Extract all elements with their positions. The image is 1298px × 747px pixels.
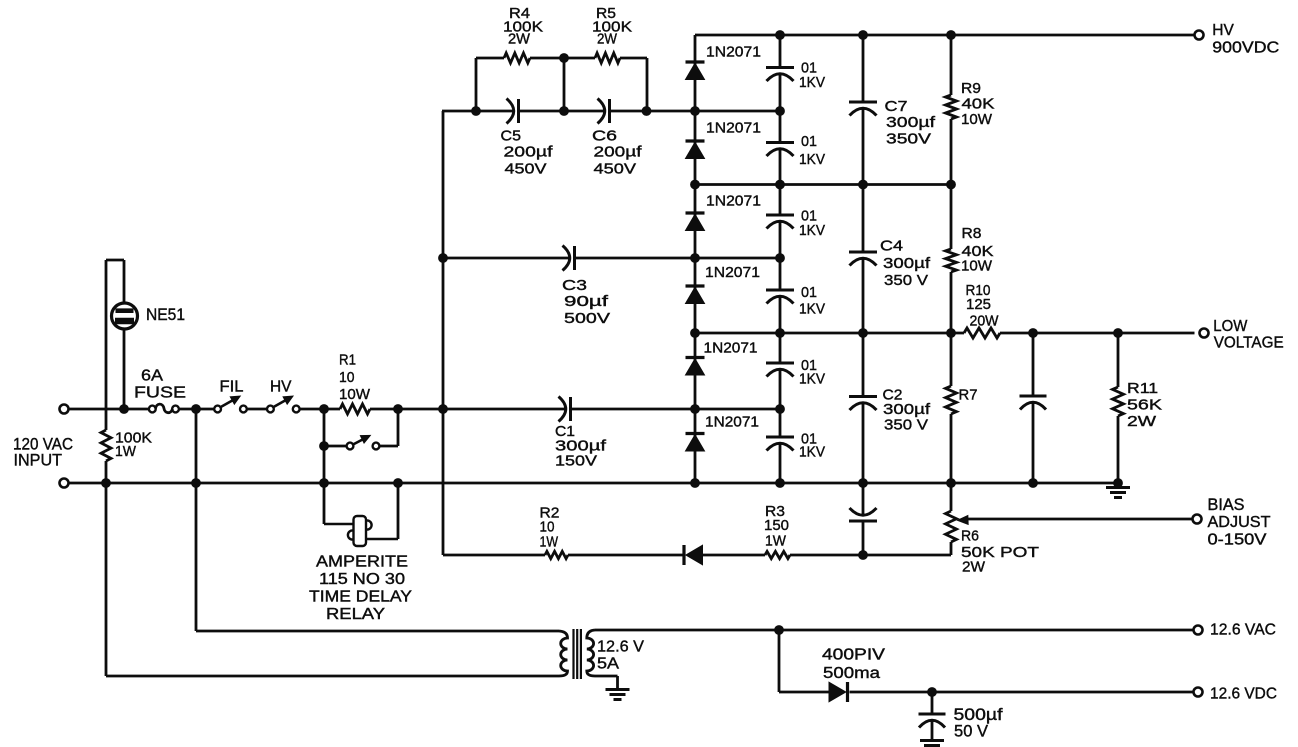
svg-text:12.6 VAC: 12.6 VAC — [1210, 622, 1276, 639]
svg-text:6A: 6A — [141, 368, 163, 385]
svg-text:50 V: 50 V — [954, 723, 988, 741]
terminal 12.6 VDC — [1194, 688, 1203, 697]
svg-text:2W: 2W — [962, 559, 986, 576]
svg-text:1N2071: 1N2071 — [706, 44, 761, 61]
diode D1 1N2071 — [686, 60, 705, 63]
capacitor C6 200uf 450V — [598, 99, 605, 124]
svg-text:10: 10 — [339, 369, 355, 386]
terminal LOW VOLTAGE — [1200, 329, 1209, 338]
capacitor .01 1KV (3) — [766, 214, 794, 217]
svg-text:1N2071: 1N2071 — [704, 340, 758, 357]
wire R11 column x=1118 — [1117, 333, 1120, 387]
node dot bias rail at cap — [858, 550, 868, 560]
fuse 6A — [149, 406, 156, 413]
wire 12.6VAC-to-rectifier branch x=779 — [778, 630, 781, 692]
wire bias rail (y=555) — [443, 554, 545, 557]
svg-text:2W: 2W — [508, 31, 531, 48]
svg-text:150V: 150V — [555, 453, 597, 470]
wire filter cap column x=1033 — [1032, 333, 1035, 396]
node dot relay bypass row — [319, 441, 329, 451]
node dot 12.6VAC branch — [774, 625, 784, 635]
svg-text:1KV: 1KV — [799, 301, 825, 318]
svg-text:1KV: 1KV — [799, 222, 825, 239]
svg-text:1N2071: 1N2071 — [706, 120, 761, 137]
resistor R8 40K 10W — [946, 249, 957, 272]
svg-text:1KV: 1KV — [799, 371, 825, 388]
wire relay bypass row (y=446) — [324, 445, 347, 448]
svg-text:R6: R6 — [961, 528, 979, 545]
diode D6 1N2071 — [686, 432, 705, 435]
wire resistor column x=951 segments — [950, 35, 953, 95]
svg-text:5A: 5A — [597, 656, 619, 673]
svg-text:10W: 10W — [961, 111, 993, 128]
diode D2 1N2071 — [686, 139, 705, 142]
svg-text:115 NO 30: 115 NO 30 — [319, 571, 405, 588]
node dots LOW VOLTAGE rail — [690, 328, 700, 338]
svg-text:10W: 10W — [961, 258, 993, 275]
svg-text:300µf: 300µf — [886, 114, 936, 131]
svg-text:1W: 1W — [540, 534, 559, 551]
svg-text:450V: 450V — [505, 161, 547, 178]
svg-text:1KV: 1KV — [799, 151, 825, 168]
wire big capacitor column x=863 segments — [862, 35, 865, 102]
terminal 12.6 VAC — [1194, 626, 1203, 635]
capacitor C7 300uf 350V — [849, 101, 877, 104]
svg-text:C5: C5 — [501, 128, 522, 145]
svg-text:TIME DELAY: TIME DELAY — [309, 589, 412, 606]
node dots C5/C6 row — [471, 106, 481, 116]
svg-text:1KV: 1KV — [799, 444, 825, 461]
ground (500uf filter) — [920, 739, 944, 742]
svg-text:1N2071: 1N2071 — [706, 193, 761, 210]
transformer primary winding — [559, 631, 568, 676]
wire row y=183 (2nd multiplier tap) — [695, 183, 951, 186]
transformer secondary winding 12.6V 5A — [587, 630, 595, 676]
resistor R10 125 20W — [964, 328, 1000, 338]
wire NE51 branch x=124 — [123, 260, 126, 304]
capacitor .01 1KV (4) — [766, 289, 794, 292]
svg-text:300µf: 300µf — [883, 255, 931, 272]
svg-text:350 V: 350 V — [884, 417, 928, 434]
wire LOW VOLTAGE rail (y=333) — [695, 332, 964, 335]
svg-text:200µf: 200µf — [594, 144, 643, 161]
svg-text:900VDC: 900VDC — [1212, 40, 1279, 57]
node dot R4-R5 junction — [559, 53, 569, 63]
capacitor .01 1KV (6) — [766, 436, 794, 439]
svg-text:ADJUST: ADJUST — [1208, 514, 1271, 531]
svg-text:150: 150 — [764, 517, 789, 534]
svg-text:LOW: LOW — [1213, 318, 1248, 335]
relay coil AMPERITE 115NO30 — [324, 523, 354, 526]
wire C5/C6 row (y=111) — [442, 110, 513, 113]
neon lamp NE51 — [112, 303, 138, 329]
svg-text:500V: 500V — [564, 310, 610, 327]
wire HV rail (top, y=35) — [695, 34, 1195, 37]
wire 0.01uf capacitor column x=780 segments — [779, 35, 782, 68]
capacitor (unlabeled, low voltage filter) — [1020, 395, 1047, 398]
node dot 500uf branch — [927, 687, 937, 697]
diode D5 1N2071 — [686, 356, 705, 359]
resistor R1 10 10W — [340, 404, 370, 414]
svg-text:400PIV: 400PIV — [822, 647, 886, 664]
svg-text:INPUT: INPUT — [14, 451, 63, 470]
svg-text:C3: C3 — [562, 277, 587, 294]
svg-text:500ma: 500ma — [823, 665, 880, 682]
capacitor .01 1KV (2) — [766, 141, 794, 144]
diode D3 1N2071 — [686, 211, 705, 214]
svg-text:HV: HV — [270, 379, 292, 396]
wire input hot rail / C1 row (y=409) — [68, 408, 149, 411]
svg-text:10W: 10W — [339, 386, 371, 403]
wire R4/R5 mid stub x=564 — [563, 58, 566, 111]
terminal HV 900VDC — [1195, 31, 1204, 40]
svg-text:RELAY: RELAY — [326, 606, 385, 623]
svg-text:12.6 VDC: 12.6 VDC — [1210, 686, 1277, 703]
resistor R11 56K 2W — [1113, 387, 1124, 416]
svg-text:NE51: NE51 — [146, 306, 185, 324]
svg-text:R7: R7 — [959, 387, 978, 404]
svg-text:1N2071: 1N2071 — [705, 264, 760, 281]
svg-text:VOLTAGE: VOLTAGE — [1214, 335, 1284, 352]
resistor R3 150 1W — [765, 551, 790, 558]
svg-text:12.6 V: 12.6 V — [597, 639, 644, 656]
resistor R4 100K 2W — [504, 53, 530, 63]
svg-text:500µf: 500µf — [954, 706, 1003, 724]
capacitor C5 200uf 450V — [507, 99, 514, 124]
capacitor 500uf 50V — [919, 713, 946, 716]
resistor R5 100K 2W — [595, 53, 620, 63]
capacitor C1 300uf 150V — [559, 397, 566, 422]
svg-text:350 V: 350 V — [884, 272, 928, 289]
transformer core — [572, 629, 574, 679]
switch relay contact (shorts R1) — [347, 443, 354, 450]
svg-text:AMPERITE: AMPERITE — [316, 554, 408, 571]
svg-text:1W: 1W — [765, 533, 787, 550]
node dots input hot rail — [119, 404, 129, 414]
wire left tall branch x=106 (loop / 100K / primary bottom feed) — [105, 260, 108, 430]
svg-text:HV: HV — [1212, 22, 1234, 39]
wire bias adjust wiper row (y=519) — [967, 518, 1195, 521]
diode (bias rectifier, pointing left) — [682, 545, 685, 565]
capacitor .01 1KV (5) — [766, 362, 794, 365]
svg-text:0-150V: 0-150V — [1208, 532, 1267, 549]
svg-text:450V: 450V — [594, 161, 637, 178]
wire 12.6VDC rail (y=692) — [779, 691, 829, 694]
resistor R2 10 1W — [545, 551, 568, 558]
terminal 120VAC input (neutral) — [60, 479, 69, 488]
svg-text:C7: C7 — [885, 98, 908, 115]
node dots top HV rail — [775, 30, 785, 40]
svg-text:R8: R8 — [962, 225, 982, 242]
svg-text:1N2071: 1N2071 — [705, 414, 759, 431]
svg-text:FUSE: FUSE — [134, 385, 186, 402]
svg-text:1W: 1W — [115, 443, 137, 460]
diode 400PIV 500ma (pointing right) — [829, 682, 846, 702]
resistor R7 — [946, 386, 957, 414]
resistor 100K 1W (input bleeder) — [101, 430, 111, 461]
wire R5 right bracket x=647 — [646, 58, 649, 111]
resistor R9 40K 10W — [946, 95, 957, 119]
svg-text:R11: R11 — [1127, 380, 1158, 397]
node dots neutral rail — [101, 478, 111, 488]
svg-text:1KV: 1KV — [799, 74, 825, 91]
svg-text:56K: 56K — [1127, 397, 1162, 414]
potentiometer R6 50K 2W — [946, 511, 957, 542]
wire 500uf branch x=932 — [931, 692, 934, 714]
switch HV — [267, 406, 274, 413]
svg-text:20W: 20W — [970, 313, 1000, 330]
svg-text:BIAS: BIAS — [1208, 496, 1245, 514]
capacitor C4 300uf 350V — [849, 251, 877, 254]
diode D4 1N2071 — [686, 284, 705, 287]
wire NE51 loop top bar (y=260) — [106, 259, 124, 262]
svg-text:C6: C6 — [592, 128, 617, 145]
ground (low voltage divider) — [1106, 486, 1130, 489]
capacitor (unlabeled, bias filter) — [849, 520, 877, 523]
svg-text:40K: 40K — [962, 96, 995, 113]
node dots C3 row — [438, 253, 448, 263]
svg-text:R1: R1 — [339, 352, 356, 369]
svg-text:90µf: 90µf — [564, 293, 609, 310]
svg-text:300µf: 300µf — [883, 401, 931, 418]
svg-text:R9: R9 — [961, 80, 981, 97]
svg-text:01: 01 — [801, 284, 817, 301]
capacitor C2 300uf 350V — [849, 395, 877, 398]
terminal 120VAC input (hot) — [60, 405, 69, 414]
ground (transformer secondary) — [606, 688, 630, 691]
svg-text:125: 125 — [966, 296, 991, 313]
wire multiplier input chain x=443 — [442, 111, 445, 555]
svg-text:2W: 2W — [1127, 413, 1157, 430]
capacitor C3 90uf 500V — [563, 246, 570, 271]
wire C3 row (y=258) — [442, 257, 569, 260]
svg-text:01: 01 — [801, 133, 817, 150]
terminal BIAS ADJUST — [1193, 515, 1202, 524]
wire R1 left / relay leg x=324 — [323, 409, 326, 524]
wire fuse-to-transformer primary top x=196 — [195, 409, 198, 631]
node dots row y=183 — [690, 180, 700, 190]
switch FIL — [214, 406, 221, 413]
svg-text:350V: 350V — [886, 131, 931, 148]
wire R4 left bracket x=476 — [475, 58, 478, 111]
wire 12.6VAC rail (y=630) — [595, 629, 1195, 632]
svg-text:200µf: 200µf — [504, 144, 554, 161]
svg-text:2W: 2W — [597, 31, 618, 48]
wire diode column x=695 — [694, 35, 697, 483]
svg-text:FIL: FIL — [220, 379, 244, 396]
svg-text:C4: C4 — [880, 238, 903, 255]
capacitor .01 1KV (1) — [766, 66, 794, 69]
wire R4/R5 top rail segments (y=58) — [476, 57, 504, 60]
wire input neutral / ground rail (y=482) — [68, 482, 1118, 485]
wire R1 right / relay leg x=398 — [397, 409, 400, 446]
